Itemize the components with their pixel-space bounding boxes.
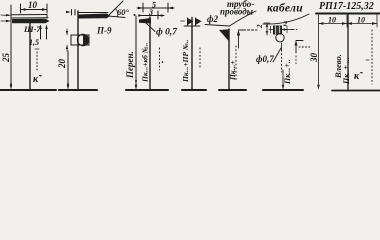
- svg-text:к̃: к̃: [354, 71, 364, 82]
- svg-text:2: 2: [283, 19, 288, 28]
- svg-text:к̃: к̃: [33, 74, 43, 85]
- svg-text:ф0,7: ф0,7: [256, 54, 274, 64]
- svg-text:Пк...+кб №..: Пк...+кб №..: [141, 42, 150, 83]
- svg-text:проводы: проводы: [220, 7, 253, 17]
- svg-text:3: 3: [148, 8, 153, 17]
- svg-text:Пк...+..: Пк...+..: [283, 59, 292, 85]
- svg-text:10: 10: [28, 0, 38, 10]
- svg-text:10: 10: [328, 16, 336, 25]
- svg-text:кабели: кабели: [267, 3, 303, 15]
- svg-text:ф 0,7: ф 0,7: [156, 27, 178, 38]
- svg-text:10: 10: [357, 16, 365, 25]
- svg-text:2: 2: [256, 24, 264, 29]
- svg-text:60°: 60°: [117, 7, 130, 17]
- svg-text:Ш-7: Ш-7: [23, 24, 41, 34]
- svg-text:РП17-125,32: РП17-125,32: [319, 1, 374, 12]
- svg-text:30: 30: [309, 53, 319, 64]
- svg-text:Пк...+ПР №..: Пк...+ПР №..: [181, 39, 190, 83]
- svg-text:20: 20: [57, 59, 67, 70]
- svg-text:Пк...+: Пк...+: [228, 60, 237, 81]
- svg-text:П-9: П-9: [96, 26, 112, 36]
- svg-text:1,5: 1,5: [29, 38, 39, 47]
- svg-text:Перен.: Перен.: [125, 51, 135, 79]
- svg-text:Пк..+ ...: Пк..+ ...: [342, 57, 351, 85]
- svg-text:25: 25: [1, 53, 11, 64]
- svg-text:ф2: ф2: [207, 14, 218, 24]
